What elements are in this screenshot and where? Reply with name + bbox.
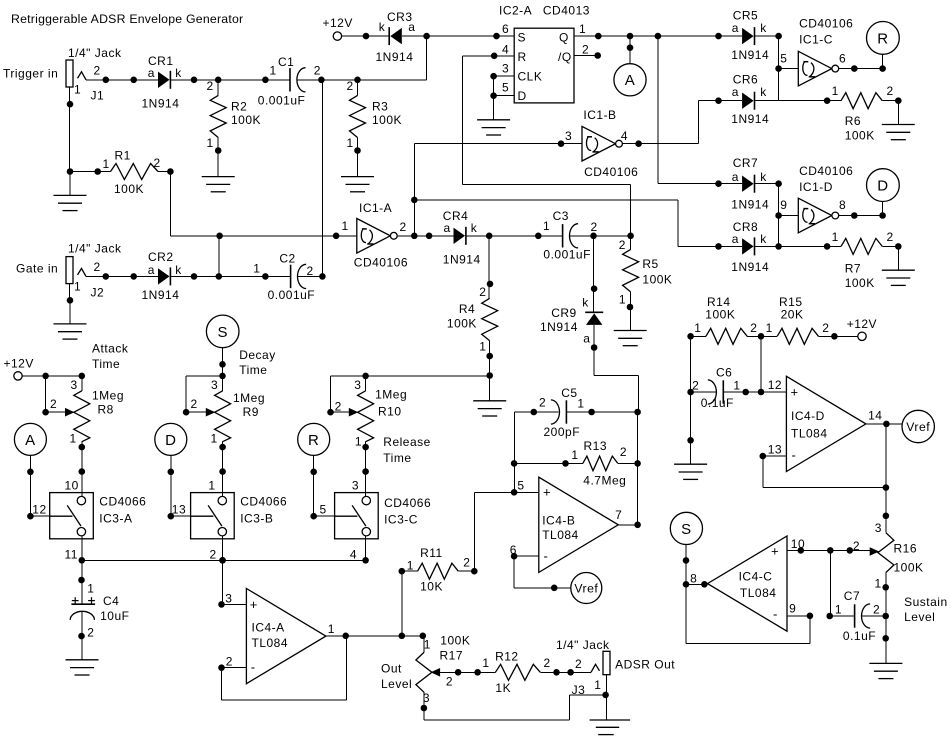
svg-text:R11: R11 <box>420 546 443 560</box>
svg-text:1: 1 <box>211 432 218 446</box>
svg-text:IC3-A: IC3-A <box>99 511 132 525</box>
svg-text:100K: 100K <box>231 113 261 127</box>
svg-text:R16: R16 <box>894 542 918 556</box>
svg-text:11: 11 <box>65 547 78 561</box>
svg-text:TL084: TL084 <box>252 636 289 650</box>
svg-text:IC1-D: IC1-D <box>799 180 833 194</box>
svg-text:1: 1 <box>619 293 626 307</box>
svg-text:3: 3 <box>352 479 359 493</box>
svg-text:IC4-D: IC4-D <box>791 409 825 423</box>
svg-text:1N914: 1N914 <box>376 50 414 64</box>
svg-text:1N914: 1N914 <box>731 260 769 274</box>
svg-text:0.001uF: 0.001uF <box>543 247 591 261</box>
svg-text:C5: C5 <box>561 386 577 400</box>
svg-text:1/4" Jack: 1/4" Jack <box>68 242 122 256</box>
svg-text:4.7Meg: 4.7Meg <box>583 473 626 487</box>
svg-text:R17: R17 <box>440 649 464 663</box>
svg-text:CD4066: CD4066 <box>99 494 146 508</box>
svg-text:100K: 100K <box>114 182 144 196</box>
svg-text:2: 2 <box>446 675 453 689</box>
svg-text:ADSR Out: ADSR Out <box>615 658 675 672</box>
svg-text:1N914: 1N914 <box>731 197 769 211</box>
svg-text:1N914: 1N914 <box>540 320 578 334</box>
svg-text:100K: 100K <box>440 633 470 647</box>
svg-text:R13: R13 <box>584 439 608 453</box>
svg-text:k: k <box>760 85 767 99</box>
svg-text:S: S <box>681 521 692 538</box>
svg-text:1: 1 <box>594 678 601 692</box>
svg-text:13: 13 <box>768 443 782 457</box>
svg-text:2: 2 <box>50 397 57 411</box>
svg-text:9: 9 <box>780 198 787 212</box>
svg-text:k: k <box>760 21 767 35</box>
svg-text:a: a <box>732 21 739 35</box>
svg-text:Gate in: Gate in <box>16 261 58 275</box>
svg-text:2: 2 <box>620 445 627 459</box>
svg-text:2: 2 <box>692 378 699 392</box>
svg-text:TL084: TL084 <box>791 427 828 441</box>
svg-text:IC1-A: IC1-A <box>359 201 392 215</box>
svg-text:-: - <box>251 660 256 675</box>
svg-text:TL084: TL084 <box>740 586 777 600</box>
svg-text:+12V: +12V <box>847 317 877 331</box>
svg-text:2: 2 <box>575 657 582 671</box>
svg-text:1N914: 1N914 <box>731 112 769 126</box>
svg-text:7: 7 <box>615 508 622 522</box>
svg-text:5: 5 <box>517 478 524 492</box>
svg-text:a: a <box>148 263 155 277</box>
svg-text:100K: 100K <box>894 561 924 575</box>
svg-text:3: 3 <box>71 378 78 392</box>
svg-text:R6: R6 <box>845 114 861 128</box>
svg-text:a: a <box>444 221 451 235</box>
svg-text:100K: 100K <box>642 273 672 287</box>
svg-text:Decay: Decay <box>239 348 276 362</box>
svg-text:3: 3 <box>565 129 572 143</box>
svg-text:J3: J3 <box>572 683 586 697</box>
svg-text:0.001uF: 0.001uF <box>258 94 306 108</box>
svg-text:R4: R4 <box>459 302 475 316</box>
svg-text:CR7: CR7 <box>733 156 759 170</box>
svg-text:2: 2 <box>207 79 214 93</box>
svg-text:1Meg: 1Meg <box>375 388 407 402</box>
svg-text:a: a <box>408 20 415 34</box>
svg-text:12: 12 <box>32 502 46 516</box>
svg-text:C3: C3 <box>553 209 569 223</box>
svg-text:2: 2 <box>463 556 470 570</box>
svg-text:1: 1 <box>347 136 354 150</box>
svg-text:1: 1 <box>74 83 81 97</box>
svg-text:IC3-B: IC3-B <box>240 511 273 525</box>
svg-text:2: 2 <box>94 63 101 77</box>
svg-text:2: 2 <box>94 260 101 274</box>
svg-text:IC2-A: IC2-A <box>499 4 532 18</box>
svg-text:6: 6 <box>502 22 509 36</box>
svg-text:2: 2 <box>619 238 626 252</box>
svg-text:Time: Time <box>383 451 411 465</box>
svg-text:CD40106: CD40106 <box>584 165 638 179</box>
svg-text:a: a <box>583 332 590 346</box>
svg-text:+: + <box>250 597 258 612</box>
svg-text:10K: 10K <box>420 580 443 594</box>
svg-text:D: D <box>165 432 176 449</box>
svg-text:IC4-A: IC4-A <box>252 620 285 634</box>
svg-text:3: 3 <box>502 62 509 76</box>
svg-text:8: 8 <box>839 198 846 212</box>
svg-text:CD40106: CD40106 <box>799 164 853 178</box>
svg-text:1: 1 <box>74 280 81 294</box>
svg-text:1: 1 <box>208 479 215 493</box>
svg-text:1: 1 <box>577 397 584 411</box>
svg-text:2: 2 <box>314 64 321 78</box>
svg-text:CD4066: CD4066 <box>240 494 287 508</box>
svg-text:2: 2 <box>582 43 589 57</box>
svg-text:4: 4 <box>621 129 628 143</box>
svg-text:1: 1 <box>875 577 882 591</box>
svg-text:R12: R12 <box>495 650 519 664</box>
svg-text:IC3-C: IC3-C <box>384 513 418 527</box>
svg-text:10: 10 <box>65 479 79 493</box>
svg-text:Time: Time <box>92 357 120 371</box>
svg-text:R7: R7 <box>845 261 861 275</box>
svg-text:1: 1 <box>342 219 349 233</box>
svg-text:A: A <box>25 432 36 449</box>
svg-text:a: a <box>732 170 739 184</box>
svg-text:/Q: /Q <box>558 50 572 64</box>
svg-text:2: 2 <box>750 321 757 335</box>
svg-text:2: 2 <box>347 79 354 93</box>
svg-text:100K: 100K <box>447 317 477 331</box>
svg-text:0.001uF: 0.001uF <box>268 288 316 302</box>
svg-text:C7: C7 <box>844 589 860 603</box>
svg-text:J2: J2 <box>91 286 105 300</box>
svg-text:1: 1 <box>766 321 773 335</box>
svg-text:Level: Level <box>381 677 412 691</box>
svg-text:8: 8 <box>690 571 697 585</box>
svg-text:10uF: 10uF <box>100 609 129 623</box>
svg-text:a: a <box>732 85 739 99</box>
svg-text:2: 2 <box>307 264 314 278</box>
svg-text:1: 1 <box>694 321 701 335</box>
svg-text:1: 1 <box>832 84 839 98</box>
svg-text:9: 9 <box>789 602 796 616</box>
svg-text:1: 1 <box>270 64 277 78</box>
svg-text:k: k <box>175 66 182 80</box>
svg-text:Attack: Attack <box>92 342 129 356</box>
svg-text:1: 1 <box>543 219 550 233</box>
svg-text:2: 2 <box>873 602 880 616</box>
svg-text:5: 5 <box>320 502 327 516</box>
svg-text:S: S <box>217 324 228 341</box>
svg-text:k: k <box>175 263 182 277</box>
svg-text:S: S <box>518 31 527 45</box>
svg-text:Trigger in: Trigger in <box>3 67 58 81</box>
svg-text:k: k <box>471 221 478 235</box>
svg-text:1: 1 <box>355 435 362 449</box>
svg-text:R8: R8 <box>98 403 114 417</box>
svg-text:1: 1 <box>832 230 839 244</box>
svg-text:1: 1 <box>87 582 94 596</box>
svg-text:13: 13 <box>172 502 186 516</box>
svg-text:A: A <box>625 72 636 89</box>
svg-text:3: 3 <box>354 378 361 392</box>
svg-text:+: + <box>791 384 799 399</box>
svg-text:0.1uF: 0.1uF <box>701 396 734 410</box>
svg-text:1: 1 <box>207 136 214 150</box>
svg-text:-: - <box>544 549 549 564</box>
svg-text:Retriggerable ADSR Envelope Ge: Retriggerable ADSR Envelope Generator <box>11 12 243 26</box>
svg-text:1: 1 <box>479 340 486 354</box>
svg-text:a: a <box>732 232 739 246</box>
svg-text:1Meg: 1Meg <box>92 389 124 403</box>
svg-text:1: 1 <box>253 262 260 276</box>
svg-text:1/4" Jack: 1/4" Jack <box>556 638 610 652</box>
svg-text:R5: R5 <box>642 257 658 271</box>
svg-text:R: R <box>877 30 888 47</box>
svg-text:k: k <box>582 296 589 310</box>
svg-text:20K: 20K <box>781 307 804 321</box>
svg-text:C6: C6 <box>716 366 732 380</box>
svg-text:R: R <box>308 432 319 449</box>
svg-text:1: 1 <box>328 622 335 636</box>
svg-text:100K: 100K <box>845 276 875 290</box>
svg-text:CR9: CR9 <box>551 306 577 320</box>
svg-text:2: 2 <box>591 220 598 234</box>
svg-text:+: + <box>543 485 551 500</box>
svg-text:Release: Release <box>383 435 431 449</box>
svg-text:Level: Level <box>904 610 935 624</box>
svg-text:1N914: 1N914 <box>142 97 180 111</box>
svg-text:2: 2 <box>226 654 233 668</box>
svg-text:100K: 100K <box>845 129 875 143</box>
svg-text:2: 2 <box>853 539 860 553</box>
svg-text:IC4-C: IC4-C <box>739 570 773 584</box>
svg-text:2: 2 <box>335 400 342 414</box>
svg-text:2: 2 <box>479 285 486 299</box>
svg-text:IC4-B: IC4-B <box>542 513 575 527</box>
svg-text:C2: C2 <box>279 252 295 266</box>
svg-text:+: + <box>771 544 779 559</box>
svg-text:0.1uF: 0.1uF <box>843 629 876 643</box>
svg-text:2: 2 <box>400 220 407 234</box>
svg-text:CD40106: CD40106 <box>354 256 408 270</box>
svg-text:R1: R1 <box>115 149 131 163</box>
svg-text:2: 2 <box>544 656 551 670</box>
svg-text:+12V: +12V <box>323 16 353 30</box>
svg-text:14: 14 <box>868 408 882 422</box>
svg-text:J1: J1 <box>91 89 105 103</box>
svg-text:Out: Out <box>381 662 402 676</box>
svg-text:1: 1 <box>482 656 489 670</box>
svg-text:IC1-B: IC1-B <box>583 108 616 122</box>
svg-text:CD4013: CD4013 <box>543 4 590 18</box>
svg-text:+12V: +12V <box>4 357 34 371</box>
svg-text:2: 2 <box>539 396 546 410</box>
svg-text:4: 4 <box>350 547 357 561</box>
svg-text:5: 5 <box>780 52 787 66</box>
svg-text:2: 2 <box>887 230 894 244</box>
svg-text:2: 2 <box>887 84 894 98</box>
svg-text:Vref: Vref <box>906 420 930 434</box>
svg-text:R10: R10 <box>378 405 402 419</box>
svg-text:Time: Time <box>239 363 267 377</box>
svg-text:2: 2 <box>87 626 94 640</box>
svg-text:CD40106: CD40106 <box>799 17 853 31</box>
svg-text:C4: C4 <box>103 594 119 608</box>
svg-text:R3: R3 <box>372 100 388 114</box>
svg-text:4: 4 <box>502 43 509 57</box>
svg-text:k: k <box>760 170 767 184</box>
svg-text:D: D <box>877 178 888 195</box>
svg-text:1: 1 <box>733 378 740 392</box>
svg-text:1: 1 <box>571 448 578 462</box>
svg-text:Vref: Vref <box>574 581 598 595</box>
svg-text:1: 1 <box>579 22 586 36</box>
svg-text:1/4" Jack: 1/4" Jack <box>68 46 122 60</box>
svg-text:1K: 1K <box>495 681 511 695</box>
svg-text:1N914: 1N914 <box>443 253 481 267</box>
svg-text:k: k <box>760 232 767 246</box>
svg-text:1: 1 <box>424 637 431 651</box>
svg-text:CD4066: CD4066 <box>384 496 431 510</box>
svg-text:R: R <box>518 50 527 64</box>
svg-text:1: 1 <box>407 558 414 572</box>
svg-text:Q: Q <box>559 31 569 45</box>
svg-text:12: 12 <box>768 378 782 392</box>
svg-text:Sustain: Sustain <box>904 595 948 609</box>
svg-text:3: 3 <box>225 591 232 605</box>
svg-text:a: a <box>148 66 155 80</box>
svg-text:2: 2 <box>191 397 198 411</box>
svg-text:200pF: 200pF <box>544 425 581 439</box>
svg-text:R9: R9 <box>243 405 259 419</box>
svg-text:IC1-C: IC1-C <box>799 33 833 47</box>
svg-text:5: 5 <box>502 81 509 95</box>
svg-text:R2: R2 <box>231 100 247 114</box>
svg-text:TL084: TL084 <box>542 528 579 542</box>
svg-text:100K: 100K <box>705 307 735 321</box>
svg-text:3: 3 <box>875 521 882 535</box>
svg-text:2: 2 <box>210 547 217 561</box>
svg-text:-: - <box>792 448 797 463</box>
svg-text:1: 1 <box>70 432 77 446</box>
svg-text:-: - <box>773 607 778 622</box>
svg-text:CLK: CLK <box>518 70 543 84</box>
svg-text:100K: 100K <box>372 113 402 127</box>
svg-text:C1: C1 <box>278 55 294 69</box>
svg-text:6: 6 <box>839 52 846 66</box>
svg-text:1N914: 1N914 <box>142 288 180 302</box>
svg-text:3: 3 <box>211 378 218 392</box>
svg-text:1Meg: 1Meg <box>233 391 265 405</box>
svg-text:k: k <box>379 20 386 34</box>
svg-text:1: 1 <box>835 602 842 616</box>
svg-text:1N914: 1N914 <box>731 48 769 62</box>
svg-text:2: 2 <box>822 321 829 335</box>
svg-text:D: D <box>518 89 527 103</box>
svg-text:1: 1 <box>103 157 110 171</box>
